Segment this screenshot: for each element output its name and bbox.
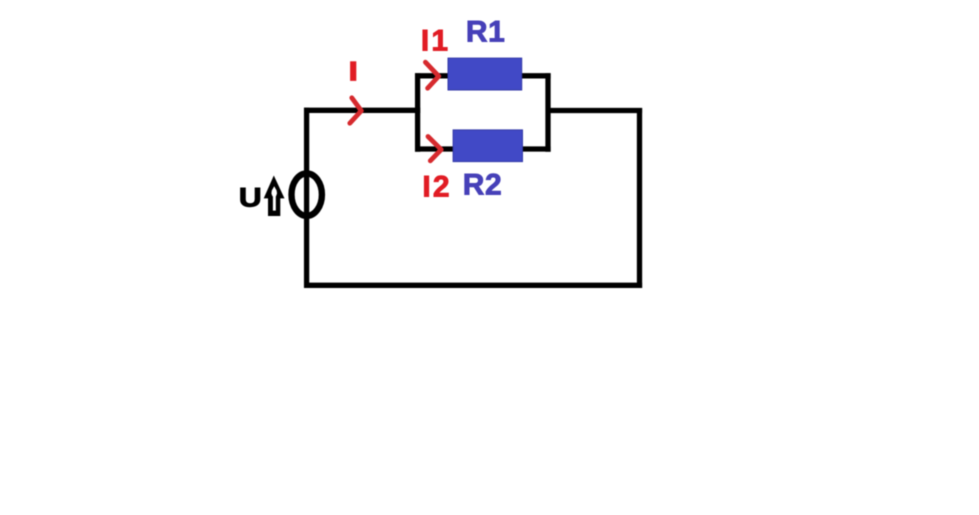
wire: right horizontal from parallel node to outer vertical [548,108,642,113]
current arrow I1 (red chevron, top branch) [425,62,438,88]
wire: bottom horizontal return [304,283,642,288]
svg-text:U: U [239,183,262,213]
wire: top branch horizontal through R1 [415,73,551,78]
wire: bottom branch horizontal through R2 [415,146,551,151]
wire: parallel section right vertical node [545,73,550,152]
resistor R2 (blue body) [453,130,522,162]
label I (red bar) [350,61,356,81]
resistor R1 (blue body) [448,58,522,90]
svg-text:R2: R2 [463,169,503,202]
voltage source U (ellipse) [292,173,322,215]
wire: parallel section left vertical node [415,73,420,152]
svg-text:I1: I1 [421,25,450,58]
voltage source polarity arrow (hollow up arrow) [264,176,285,217]
wire: top horizontal from source branch to parallel node [304,108,420,113]
svg-text:I2: I2 [422,170,451,203]
svg-text:R1: R1 [466,16,506,49]
wire: right outer vertical [637,108,642,288]
current arrow I2 (red chevron, bottom branch) [428,137,441,161]
current arrow I (red chevron on main wire) [350,98,362,123]
wire: left vertical through voltage source [304,108,309,288]
